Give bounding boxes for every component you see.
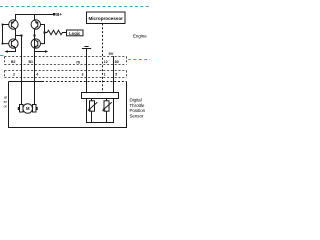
wire emitter Q3 (8, 48, 16, 51)
transistor Q4 (bottom-right NPN) (31, 39, 40, 48)
wire node stub left (16, 35, 22, 37)
motor terminal nub right (36, 107, 38, 110)
ECM dashed border left remnant (0, 55, 4, 57)
junction dot left base bottom (2, 43, 4, 45)
svg-text:M: M (26, 106, 30, 111)
wire left base rail (3, 25, 9, 44)
junction dot base rail resistor tap (44, 32, 46, 34)
junction dot right node (34, 35, 36, 37)
transistor Q1 (top-left PNP) (9, 20, 18, 29)
svg-text:5: 5 (115, 73, 117, 77)
svg-text:B2: B2 (11, 60, 16, 64)
junction dot left node (21, 35, 23, 37)
microprocessor U1 (87, 12, 126, 24)
logic box U2 (67, 30, 84, 36)
motor M1 (20, 104, 37, 114)
ground symbol (82, 47, 91, 49)
connector band ECM (dashed) (5, 57, 127, 65)
svg-text:76: 76 (76, 61, 80, 65)
arrowhead emitter Q4 (45, 50, 48, 53)
wire motor feed 1 (21, 36, 23, 105)
terminal B+ (53, 13, 56, 16)
ECM dashed border top (0, 6, 150, 8)
svg-text:4: 4 (36, 73, 38, 77)
ECM dashed border bottom-right (128, 59, 150, 61)
arrowhead emitter Q3 (5, 50, 8, 53)
throttle body box (9, 82, 127, 128)
svg-text:5V: 5V (109, 51, 114, 56)
wire microprocessor signal (dashed) (102, 24, 104, 93)
svg-text:Microprocessor: Microprocessor (88, 16, 123, 21)
svg-text:3: 3 (82, 73, 84, 77)
wire emitter Q4 (35, 48, 46, 51)
TPS internals (87, 99, 114, 123)
svg-text:Position: Position (130, 108, 146, 113)
wire collector column right (34, 29, 36, 40)
wire 5V to TPS pin 5 (113, 56, 115, 93)
resistor R1 (45, 30, 67, 34)
svg-text:80: 80 (115, 60, 119, 64)
wire ground to TPS pin 3 (86, 49, 88, 93)
potentiometer P2 (104, 101, 109, 111)
wire B+ rail (16, 15, 54, 20)
TPS connector bar (82, 93, 119, 99)
svg-text:Digital: Digital (130, 98, 142, 103)
junction dot left base top (2, 24, 4, 26)
transistor Q2 (top-right PNP) (31, 20, 40, 29)
wire TPS left loop (87, 99, 114, 123)
wire right base rail (41, 25, 45, 44)
svg-text:Sensor: Sensor (130, 113, 144, 118)
wire emitter drop Q2 (34, 15, 36, 20)
connector band harness (dashed) (5, 71, 127, 78)
arrowhead wiper P1 (88, 108, 92, 111)
svg-text:2: 2 (13, 73, 15, 77)
wire collector column left (15, 29, 17, 40)
arrowhead wiper P2 (102, 108, 106, 111)
svg-text:12: 12 (104, 60, 108, 64)
svg-text:Throttle: Throttle (130, 103, 145, 108)
svg-text:Engine: Engine (133, 34, 147, 39)
svg-text:B1: B1 (29, 60, 34, 64)
svg-text:1: 1 (104, 73, 106, 77)
svg-text:Logic: Logic (69, 31, 81, 36)
transistor Q3 (bottom-left NPN) (9, 39, 18, 48)
motor terminal nub left (18, 107, 20, 110)
wire motor feed 2 (34, 39, 36, 104)
svg-text:B+: B+ (56, 12, 62, 17)
potentiometer P1 (90, 101, 95, 111)
